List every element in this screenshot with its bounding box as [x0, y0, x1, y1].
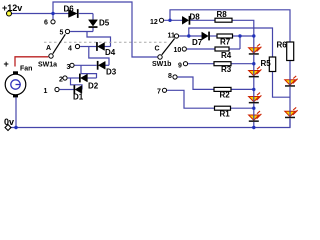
svg-text:1: 1	[44, 88, 48, 95]
svg-text:C: C	[155, 46, 160, 53]
svg-text:+12v: +12v	[2, 3, 22, 13]
svg-text:R6: R6	[277, 41, 288, 50]
svg-text:4: 4	[68, 46, 72, 53]
svg-text:SW1b: SW1b	[152, 61, 171, 68]
svg-text:D7: D7	[192, 38, 203, 47]
svg-text:D3: D3	[106, 68, 117, 77]
svg-text:7: 7	[157, 89, 161, 96]
svg-text:D6: D6	[64, 5, 75, 14]
svg-text:10: 10	[174, 47, 182, 54]
svg-text:0v: 0v	[4, 117, 14, 127]
svg-text:SW1a: SW1a	[38, 62, 57, 69]
svg-text:6: 6	[44, 20, 48, 27]
svg-text:R1: R1	[220, 110, 231, 119]
svg-text:R7: R7	[220, 38, 231, 47]
svg-text:5: 5	[60, 30, 64, 37]
svg-text:D1: D1	[73, 93, 84, 102]
svg-text:11: 11	[168, 33, 176, 40]
svg-text:2: 2	[59, 77, 63, 84]
svg-text:8: 8	[168, 73, 172, 80]
svg-text:D8: D8	[190, 13, 201, 22]
svg-text:R2: R2	[220, 91, 231, 100]
svg-text:R3: R3	[221, 65, 232, 74]
svg-text:D2: D2	[88, 82, 99, 91]
svg-text:D4: D4	[105, 48, 116, 57]
svg-text:R5: R5	[261, 59, 272, 68]
svg-text:+: +	[4, 59, 9, 69]
svg-text:9: 9	[178, 63, 182, 70]
svg-text:R4: R4	[221, 51, 232, 60]
svg-text:A: A	[46, 45, 51, 52]
svg-text:R8: R8	[217, 10, 228, 19]
svg-text:Fan: Fan	[20, 66, 32, 73]
svg-text:12: 12	[150, 19, 158, 26]
svg-text:D5: D5	[99, 19, 110, 28]
svg-text:3: 3	[67, 64, 71, 71]
